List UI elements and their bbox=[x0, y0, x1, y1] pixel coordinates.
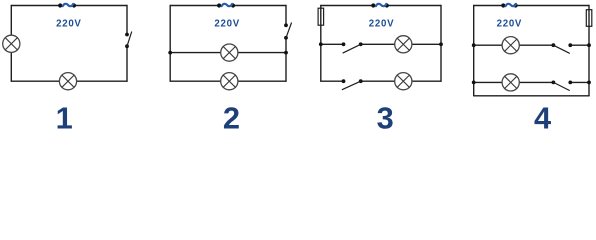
lamp L1 circuit 1 (left) bbox=[3, 35, 20, 52]
wire: circuit 2 middle branch bbox=[170, 52, 286, 54]
AC source terminals circuit 3 bbox=[371, 3, 375, 7]
wire: circuit 4 left side bbox=[473, 6, 475, 96]
wire: circuit 1 right side upper bbox=[126, 6, 128, 35]
svg-text:220V: 220V bbox=[214, 18, 239, 29]
svg-text:2: 2 bbox=[223, 101, 240, 136]
junction node bottom-left circuit 4 bbox=[472, 81, 476, 85]
wire: circuit 1 top-right segment bbox=[74, 5, 127, 7]
wire: circuit 1 bottom bbox=[11, 80, 127, 82]
AC source terminals circuit 4 bbox=[501, 3, 505, 7]
wire: circuit 2 top-left segment bbox=[170, 5, 219, 7]
switch S4 circuit 3 (bottom branch, open) bbox=[342, 79, 363, 89]
junction node right circuit 2 bbox=[284, 51, 288, 55]
svg-text:220V: 220V bbox=[56, 18, 81, 29]
wire: circuit 3 right side bbox=[440, 6, 442, 82]
wire: circuit 4 branch 1 left bbox=[474, 44, 554, 46]
wire: circuit 4 right side bbox=[588, 6, 590, 96]
lamp L3 circuit 2 (middle) bbox=[221, 44, 238, 61]
junction node top-right circuit 4 bbox=[587, 43, 591, 47]
junction node left circuit 3 bbox=[319, 42, 323, 46]
wire: circuit 3 top-left segment bbox=[321, 5, 374, 7]
junction node left circuit 2 bbox=[168, 51, 172, 55]
junction node bottom-right circuit 4 bbox=[587, 81, 591, 85]
svg-text:4: 4 bbox=[534, 101, 551, 136]
switch S3 circuit 3 (middle branch, open) bbox=[342, 42, 363, 53]
wire: circuit 2 right side upper bbox=[285, 6, 287, 26]
switch S2 circuit 2 (right side, open) bbox=[284, 23, 291, 40]
wire: circuit 1 left side bbox=[10, 6, 12, 82]
AC source terminals circuit 1 bbox=[58, 3, 62, 7]
wire: circuit 1 right side lower bbox=[126, 46, 128, 81]
AC source tilde circuit 3 bbox=[376, 4, 386, 6]
wire: circuit 1 top-left segment bbox=[11, 5, 60, 7]
lamp L8 circuit 4 (branch 2) bbox=[502, 74, 519, 91]
fuse F1 circuit 3 (left side) bbox=[318, 8, 324, 25]
switch S5 circuit 4 (branch 1, open) bbox=[552, 43, 573, 53]
wire: circuit 4 top-left segment bbox=[474, 5, 504, 7]
fuse F2 circuit 4 (right side) bbox=[586, 10, 592, 27]
wire: circuit 2 bottom bbox=[170, 80, 286, 82]
wire: circuit 4 branch 2 right bbox=[570, 81, 589, 83]
wire: circuit 3 middle branch right bbox=[361, 43, 441, 45]
wire: circuit 2 left side bbox=[169, 6, 171, 82]
switch S6 circuit 4 (branch 2, open) bbox=[552, 81, 573, 91]
svg-text:220V: 220V bbox=[497, 18, 522, 29]
wire: circuit 2 right side lower bbox=[285, 38, 287, 81]
AC source terminals circuit 2 bbox=[217, 3, 221, 7]
switch S1 circuit 1 (right side, open) bbox=[125, 32, 132, 48]
wire: circuit 3 left side bbox=[320, 6, 322, 82]
junction node right circuit 3 bbox=[439, 42, 443, 46]
lamp L6 circuit 3 (bottom) bbox=[395, 73, 412, 90]
lamp L4 circuit 2 (bottom) bbox=[221, 73, 238, 90]
wire: circuit 3 bottom right bbox=[361, 80, 441, 82]
wire: circuit 3 top-right segment bbox=[387, 5, 441, 7]
wire: circuit 4 branch 1 right bbox=[570, 44, 589, 46]
wire: circuit 4 branch 2 left bbox=[474, 81, 554, 83]
lamp L5 circuit 3 (middle) bbox=[395, 36, 412, 53]
wire: circuit 4 top-right segment bbox=[516, 5, 589, 7]
wire: circuit 2 top-right segment bbox=[233, 5, 286, 7]
AC source tilde circuit 2 bbox=[222, 4, 232, 6]
svg-text:3: 3 bbox=[377, 101, 394, 136]
junction node top-left circuit 4 bbox=[472, 43, 476, 47]
svg-text:220V: 220V bbox=[369, 18, 394, 29]
AC source tilde circuit 1 bbox=[63, 4, 73, 6]
AC source tilde circuit 4 bbox=[506, 4, 516, 6]
lamp L2 circuit 1 (bottom) bbox=[59, 73, 76, 90]
lamp L7 circuit 4 (branch 1) bbox=[502, 37, 519, 54]
wire: circuit 4 bottom bbox=[474, 95, 589, 97]
wire: circuit 3 middle branch left bbox=[321, 43, 344, 45]
wire: circuit 3 bottom left bbox=[321, 80, 344, 82]
svg-text:1: 1 bbox=[56, 101, 73, 136]
